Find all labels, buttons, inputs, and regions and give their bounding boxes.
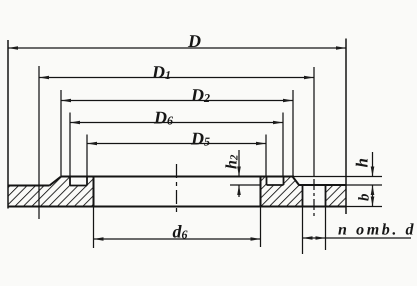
extension line D6 left <box>69 113 71 177</box>
dimension h2 lower segment with up arrow <box>238 185 240 197</box>
dimension line D2 <box>61 100 293 102</box>
dimension line D1 <box>39 77 314 79</box>
contour: right bevel slope <box>293 177 300 186</box>
dimension line d6 <box>94 238 261 240</box>
extension line D5 left <box>86 135 88 177</box>
contour: left bevel slope <box>50 177 62 186</box>
svg-text:D: D <box>187 31 201 51</box>
dimension line D6 <box>70 122 283 124</box>
leader line under n otv d text <box>326 237 412 239</box>
dimension h upper segment with down arrow <box>372 152 374 177</box>
contour: plate top right (crosses bolt hole) <box>299 184 346 186</box>
extension line D2 left <box>60 90 62 176</box>
svg-text:b: b <box>357 193 373 201</box>
contour: flange bottom line <box>8 206 346 208</box>
flange outer-rim section hatch (right of bolt hole) <box>326 185 347 207</box>
extension line d6 right (bore wall extended) <box>260 207 262 248</box>
contour: bore wall left <box>93 177 95 207</box>
extension line D2 right <box>292 90 294 176</box>
extension line D left / flange left edge <box>7 40 9 209</box>
dimension h2 upper segment with down arrow <box>238 150 240 177</box>
dimension line n otv d (across bolt hole) <box>303 237 326 239</box>
contour: left groove wall outer <box>69 177 71 186</box>
extension line h/b middle (plate top level) <box>346 184 382 186</box>
contour: left groove wall inner <box>86 177 88 186</box>
extension line D right / flange right edge <box>345 39 347 215</box>
contour: right groove wall inner <box>266 177 268 186</box>
contour: bolt hole right edge <box>325 185 327 207</box>
contour: raised face top long line <box>61 176 294 178</box>
extension line D5 right <box>265 135 267 177</box>
contour: right groove wall outer <box>283 177 285 186</box>
extension line D1 left (bolt hole centerline left) <box>38 66 40 219</box>
extension line bolt hole right extended <box>325 207 327 251</box>
extension line d6 left (bore wall extended) <box>93 207 95 249</box>
extension line D1 right upper <box>313 67 315 177</box>
contour: plate top left <box>8 185 50 187</box>
extension line bolt hole left extended <box>302 207 304 255</box>
dimension line D5 <box>87 143 266 145</box>
flange left section hatch <box>8 177 94 207</box>
dimension line D <box>8 47 346 49</box>
svg-text:n оmb. d: n оmb. d <box>338 222 416 239</box>
contour: left groove floor <box>70 185 87 187</box>
extension line h2 lower (groove floor level) <box>230 184 261 186</box>
extension line h top (raised face level) <box>294 176 382 178</box>
extension line b bottom (plate bottom level) <box>346 206 382 208</box>
contour: bore wall right <box>260 177 262 207</box>
extension line D6 right <box>282 113 284 177</box>
contour: bolt hole left edge <box>302 185 304 207</box>
center axis line (dash-dot) <box>176 164 178 216</box>
bolt hole centerline right (dash-dot) <box>313 179 315 219</box>
dimension b segment with up+down arrows <box>372 185 374 207</box>
flange right section hatch <box>261 177 303 207</box>
svg-text:h: h <box>353 158 372 167</box>
contour: right groove floor <box>267 184 284 186</box>
